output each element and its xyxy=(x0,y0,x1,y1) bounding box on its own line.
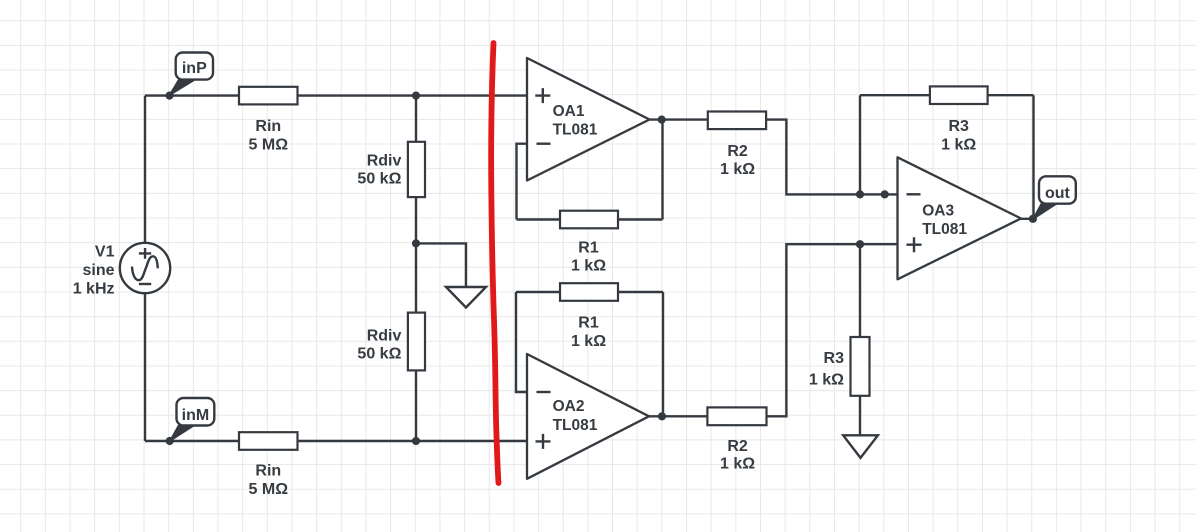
svg-text:V1: V1 xyxy=(95,244,115,261)
ground (output reference) xyxy=(843,435,878,458)
svg-text:1 kΩ: 1 kΩ xyxy=(571,258,606,275)
resistor R2 (top) xyxy=(708,112,766,130)
junction node divider midpoint xyxy=(412,239,420,247)
label R1 top value xyxy=(571,239,606,274)
label R3 feedback value xyxy=(941,118,976,154)
wire divider midpoint branch to ground xyxy=(416,243,466,287)
svg-text:sine: sine xyxy=(82,262,114,279)
svg-text:R3: R3 xyxy=(948,118,969,135)
wire OA3 feedback right vertical xyxy=(1032,95,1034,219)
svg-text:TL081: TL081 xyxy=(553,417,598,434)
resistor Rin (bottom) xyxy=(239,432,298,450)
svg-text:Rin: Rin xyxy=(255,118,281,135)
svg-text:OA1: OA1 xyxy=(553,103,585,120)
svg-text:1 kΩ: 1 kΩ xyxy=(720,161,755,178)
svg-text:out: out xyxy=(1045,185,1071,202)
label R2 top value xyxy=(720,143,755,178)
wire OA3 feedback top horizontal through R3 xyxy=(860,94,1034,96)
OA1 non-inverting pin + xyxy=(535,88,550,103)
OA3 non-inverting pin + xyxy=(907,237,922,252)
resistor Rdiv (top) xyxy=(408,142,425,197)
resistor R2 (bottom) xyxy=(707,407,766,425)
resistor Rdiv (bottom) xyxy=(408,313,425,371)
op-amp OA3 xyxy=(898,157,1022,279)
net flag out xyxy=(1033,176,1076,219)
OA1 inverting pin - xyxy=(537,142,551,144)
wire OA1 output to R2 xyxy=(650,118,708,120)
wire R3 to ground branch xyxy=(859,244,861,435)
label R2 bottom value xyxy=(720,438,755,473)
wire OA2 output to R2 xyxy=(649,415,707,417)
resistor R1 (OA1 feedback) xyxy=(560,211,618,229)
OA2 inverting pin - xyxy=(537,391,551,393)
wire OA2 feedback right vertical xyxy=(662,292,664,416)
junction node OA3 inverting pin xyxy=(881,190,889,198)
OA3 inverting pin - xyxy=(907,193,921,195)
wire R2 top to OA3 inverting input xyxy=(766,120,897,195)
junction node OA3 inverting feedback xyxy=(856,190,864,198)
svg-text:inM: inM xyxy=(182,407,210,424)
label Rdiv top value xyxy=(357,153,401,188)
svg-text:R2: R2 xyxy=(727,438,748,455)
label R3 ground value xyxy=(809,350,844,388)
junction node bottom net / divider xyxy=(412,437,420,445)
net flag inP xyxy=(169,53,213,96)
svg-text:1 kΩ: 1 kΩ xyxy=(720,456,755,473)
svg-text:1 kΩ: 1 kΩ xyxy=(809,371,844,388)
red annotation line xyxy=(491,43,498,483)
svg-text:TL081: TL081 xyxy=(922,221,967,238)
svg-text:50 kΩ: 50 kΩ xyxy=(357,171,401,188)
op-amp OA1 xyxy=(527,58,650,181)
junction node OA2 output xyxy=(658,412,666,420)
resistor Rin (top) xyxy=(239,87,298,105)
svg-text:5 MΩ: 5 MΩ xyxy=(249,481,289,498)
svg-text:inP: inP xyxy=(182,60,207,77)
svg-text:R3: R3 xyxy=(824,350,845,367)
svg-text:R1: R1 xyxy=(578,239,599,256)
svg-text:R1: R1 xyxy=(578,315,599,332)
svg-text:1 kΩ: 1 kΩ xyxy=(941,137,976,154)
svg-text:Rdiv: Rdiv xyxy=(367,153,402,170)
op-amp OA2 xyxy=(527,354,649,479)
OA2 non-inverting pin + xyxy=(536,434,551,449)
label V1 value xyxy=(73,244,115,298)
junction node at inP xyxy=(165,92,173,100)
svg-text:50 kΩ: 50 kΩ xyxy=(357,346,401,363)
wire OA2 inverting input stub xyxy=(516,292,527,392)
wire OA1 feedback bottom horizontal through R1 xyxy=(517,218,663,220)
ground (divider midpoint) xyxy=(446,287,486,308)
wire V1 bottom lead xyxy=(144,293,146,441)
wire OA3 output stub to node out xyxy=(1021,218,1034,220)
svg-text:R2: R2 xyxy=(727,143,748,160)
svg-text:1 kΩ: 1 kΩ xyxy=(571,333,606,350)
wire top net inP: V1 top to OA1 + input xyxy=(145,94,527,96)
svg-text:OA3: OA3 xyxy=(922,203,954,220)
svg-text:5 MΩ: 5 MΩ xyxy=(249,136,289,153)
junction node OA3 non-inverting / R3 xyxy=(856,240,864,248)
net flag inM xyxy=(170,398,215,441)
voltage source V1 xyxy=(120,243,170,293)
resistor R3 (OA3 feedback) xyxy=(930,86,988,104)
label Rdiv bottom value xyxy=(357,328,401,363)
svg-text:1 kHz: 1 kHz xyxy=(73,281,115,298)
svg-text:Rdiv: Rdiv xyxy=(367,328,402,345)
wire V1 top lead xyxy=(144,96,146,243)
wire bottom net inM: V1 bottom to OA2 + input xyxy=(145,440,527,442)
svg-text:TL081: TL081 xyxy=(553,122,598,139)
wire OA1 inverting input stub xyxy=(517,144,528,220)
wire OA1 feedback right vertical xyxy=(661,120,663,220)
resistor R3 (to ground) xyxy=(851,337,870,396)
label Rin top value xyxy=(249,118,289,153)
junction node top net / divider xyxy=(412,92,420,100)
svg-text:Rin: Rin xyxy=(255,463,281,480)
resistor R1 (OA2 feedback) xyxy=(560,283,618,301)
wire OA3 feedback left vertical xyxy=(859,95,861,194)
wire OA2 feedback top horizontal through R1 xyxy=(516,291,663,293)
label R1 bottom value xyxy=(571,315,606,351)
junction node out xyxy=(1029,215,1037,223)
wire Rdiv divider chain vertical xyxy=(415,96,417,441)
junction node at inM xyxy=(166,437,174,445)
svg-text:OA2: OA2 xyxy=(553,398,585,415)
wire R2 bottom to OA3 non-inverting input xyxy=(767,244,898,416)
label Rin bottom value xyxy=(249,463,289,498)
junction node OA1 output xyxy=(658,116,666,124)
